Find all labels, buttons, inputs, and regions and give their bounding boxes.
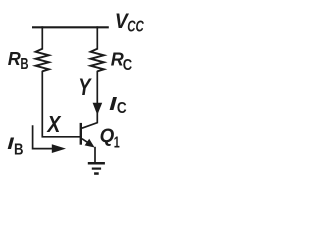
current arrow IC (93, 103, 103, 115)
wire rail to RC (96, 26, 98, 49)
svg-text:C: C (123, 57, 133, 74)
svg-text:R: R (8, 49, 21, 69)
svg-text:C: C (117, 100, 127, 117)
transistor Q1 base bar (80, 123, 82, 145)
resistor RB (36, 49, 49, 72)
label IB (7, 134, 23, 158)
label RC (111, 50, 133, 74)
label RB (8, 49, 29, 73)
svg-text:B: B (20, 56, 28, 73)
ground (88, 162, 105, 175)
label Q1 (100, 125, 120, 151)
label VCC (115, 10, 144, 35)
svg-text:Q: Q (100, 125, 115, 147)
wire RC to collector of Q1 (82, 71, 97, 128)
svg-text:CC: CC (127, 18, 144, 35)
resistor RC (91, 49, 104, 72)
svg-text:X: X (46, 111, 62, 137)
wire rail to RB (41, 26, 43, 49)
label IC (109, 94, 127, 117)
wire emitter to ground (94, 147, 96, 162)
svg-text:B: B (14, 141, 24, 158)
svg-text:1: 1 (114, 134, 120, 151)
transistor Q1 emitter with arrow (82, 139, 95, 148)
current arrow IB (33, 125, 66, 153)
wire VCC supply rail (32, 26, 109, 28)
wire RB to node X to base (42, 71, 80, 137)
svg-text:Y: Y (78, 74, 92, 101)
